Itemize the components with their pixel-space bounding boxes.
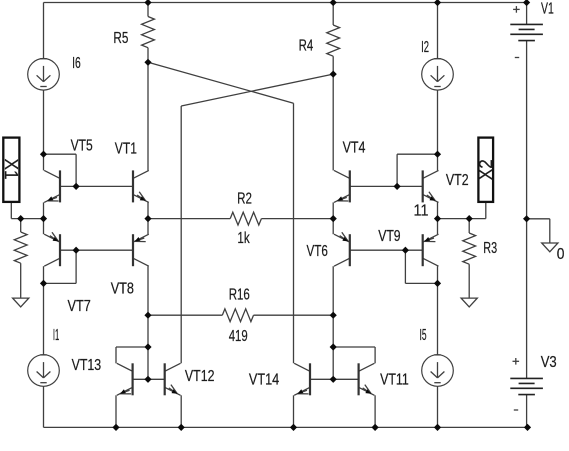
svg-text:419: 419 [229, 328, 248, 345]
svg-text:V3: V3 [541, 354, 557, 371]
svg-text:I5: I5 [420, 327, 427, 344]
svg-text:11: 11 [414, 202, 429, 219]
svg-text:R4: R4 [299, 37, 314, 54]
svg-text:X2: X2 [475, 159, 496, 180]
svg-text:R3: R3 [483, 240, 497, 257]
svg-text:VT14: VT14 [249, 371, 280, 388]
svg-text:I2: I2 [421, 39, 429, 56]
svg-text:VT8: VT8 [111, 281, 134, 298]
svg-text:1k: 1k [237, 230, 250, 247]
svg-text:V1: V1 [541, 1, 554, 18]
svg-text:VT6: VT6 [307, 243, 328, 260]
svg-text:VT4: VT4 [343, 139, 366, 156]
svg-text:VT13: VT13 [72, 357, 102, 374]
svg-text:VT2: VT2 [446, 172, 469, 189]
svg-text:VT12: VT12 [185, 368, 215, 385]
svg-text:VT9: VT9 [378, 228, 400, 245]
svg-text:R16: R16 [229, 286, 250, 303]
svg-text:VT1: VT1 [115, 141, 137, 158]
svg-text:VT5: VT5 [71, 137, 93, 154]
svg-text:I6: I6 [72, 55, 81, 72]
svg-text:VT7: VT7 [68, 298, 91, 315]
svg-text:VT11: VT11 [380, 372, 409, 389]
svg-text:I1: I1 [53, 327, 59, 344]
svg-text:R5: R5 [113, 30, 128, 47]
svg-text:R2: R2 [237, 190, 252, 207]
svg-text:X1: X1 [1, 159, 22, 180]
svg-text:0: 0 [557, 246, 565, 263]
